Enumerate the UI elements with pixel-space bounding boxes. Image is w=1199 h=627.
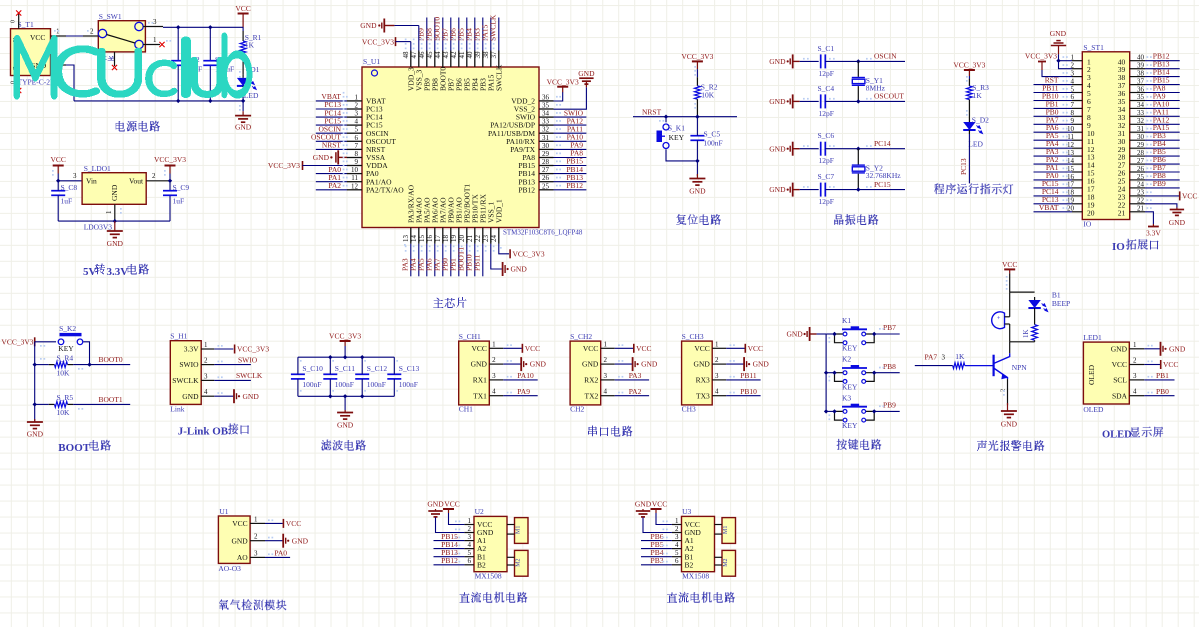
svg-text:27: 27	[1137, 157, 1145, 165]
svg-text:VCC_3V3: VCC_3V3	[154, 155, 186, 164]
capacitor S_C2	[171, 55, 202, 74]
svg-text:12pF: 12pF	[819, 197, 834, 206]
svg-text:19: 19	[450, 235, 458, 243]
svg-text:20: 20	[458, 235, 466, 243]
svg-text:GND: GND	[689, 187, 706, 196]
svg-text:GND: GND	[235, 123, 252, 132]
svg-text:24: 24	[1137, 181, 1145, 189]
junction key K2 right	[872, 371, 876, 375]
svg-text:CH3: CH3	[682, 404, 696, 413]
svg-text:23: 23	[1137, 189, 1145, 197]
svg-text:GND: GND	[769, 97, 786, 106]
title IO拓展口	[1112, 239, 1159, 253]
GND bar left S_C6	[769, 142, 818, 156]
svg-text:5: 5	[675, 549, 679, 557]
pin 0 top of S_T1	[11, 13, 19, 29]
svg-text:OLED: OLED	[1087, 364, 1096, 385]
svg-text:48: 48	[402, 51, 410, 59]
S_CH2 TX net	[615, 387, 649, 396]
junction key rail K2	[824, 371, 828, 375]
svg-text:5: 5	[355, 126, 359, 134]
S_CH1 GND port	[503, 357, 546, 371]
mcu left pins 1-12	[347, 93, 404, 194]
U3 net labels	[641, 532, 672, 565]
svg-text:GND: GND	[110, 184, 119, 201]
svg-text:4: 4	[1133, 388, 1137, 396]
crystal lead bottom	[857, 174, 859, 190]
junction filter top 345	[343, 355, 347, 359]
regulator S_LDO1 LDO3V3	[82, 164, 146, 232]
svg-text:3: 3	[715, 372, 719, 380]
S_CH3 TX net	[726, 387, 760, 396]
driver U2 body	[474, 507, 507, 581]
svg-text:1K: 1K	[973, 91, 983, 100]
capacitor S_C3 lead	[209, 27, 211, 101]
svg-text:TX1: TX1	[473, 391, 487, 400]
svg-text:GND: GND	[769, 144, 786, 153]
capacitor S_C2 lead	[177, 27, 179, 101]
svg-text:AO-O3: AO-O3	[218, 564, 241, 573]
title 直流电机电路 U3	[667, 592, 735, 603]
mcu VCC_3V3 at VDD_3	[362, 37, 411, 50]
cap C5 leads	[696, 117, 698, 161]
svg-text:100nF: 100nF	[335, 380, 354, 389]
svg-text:37: 37	[1137, 77, 1145, 85]
svg-text:20: 20	[1087, 208, 1095, 217]
junction key rail K3	[824, 409, 828, 413]
svg-text:13: 13	[402, 235, 410, 243]
svg-text:PB12: PB12	[566, 181, 583, 190]
junction NRST R2	[695, 115, 699, 119]
svg-text:VCC: VCC	[1002, 260, 1017, 269]
crystal S_Y1 lead top	[857, 61, 859, 77]
svg-text:GND: GND	[1169, 344, 1186, 353]
svg-text:4: 4	[468, 541, 472, 549]
key K3 wire left	[826, 410, 834, 412]
wire BOOT1 left	[35, 403, 49, 405]
capacitor S_C13 leads	[0, 0, 1, 1]
svg-text:K3: K3	[842, 393, 851, 402]
svg-text:1: 1	[604, 340, 608, 348]
header right net labels	[1145, 52, 1180, 188]
U3 VCC symbol	[651, 509, 662, 513]
jlink SWCLK	[214, 371, 263, 380]
svg-text:VCC_3V3: VCC_3V3	[513, 249, 545, 258]
svg-text:S_R5: S_R5	[57, 393, 74, 402]
pin 1 VCC of S_T1	[51, 28, 67, 37]
svg-text:VCC_3V3: VCC_3V3	[547, 78, 579, 87]
svg-text:33: 33	[1137, 109, 1145, 117]
svg-text:K2: K2	[842, 355, 851, 364]
title 串口电路	[588, 426, 632, 437]
GND bar left S_C7	[769, 183, 818, 197]
svg-text:GND: GND	[578, 69, 595, 78]
svg-text:S_C10: S_C10	[302, 364, 323, 373]
svg-text:VCC_3V3: VCC_3V3	[237, 345, 269, 354]
svg-text:S_LDO1: S_LDO1	[84, 164, 111, 173]
power port VCC_3V3 (led)	[953, 60, 985, 76]
crystal freq label	[866, 171, 901, 180]
svg-text:3: 3	[204, 372, 208, 380]
header GND pin22	[1145, 204, 1186, 227]
svg-text:NPN: NPN	[1012, 363, 1028, 372]
svg-text:30: 30	[542, 142, 550, 150]
svg-text:S_K1: S_K1	[668, 124, 685, 133]
svg-text:VCC: VCC	[748, 344, 763, 353]
svg-text:IO: IO	[1112, 241, 1125, 253]
wire VCC to R1	[242, 27, 244, 41]
capacitor S_C12 leads	[0, 0, 1, 1]
svg-text:12pF: 12pF	[819, 156, 834, 165]
title 5V转3.3V电路	[83, 264, 149, 279]
svg-text:2: 2	[152, 172, 156, 180]
svg-text:VCC: VCC	[286, 519, 301, 528]
svg-text:PB11: PB11	[473, 254, 482, 271]
svg-text:OLED: OLED	[1083, 405, 1104, 414]
svg-text:MX1508: MX1508	[475, 572, 502, 581]
mcu GND at VSS_1	[491, 244, 528, 276]
boot GND symbol	[27, 404, 44, 438]
svg-text:VCC: VCC	[232, 519, 247, 528]
svg-text:3: 3	[675, 533, 679, 541]
title 主芯片	[433, 297, 466, 308]
svg-text:SWCLK: SWCLK	[172, 376, 199, 385]
svg-text:SCL: SCL	[1113, 376, 1127, 385]
svg-text:3: 3	[942, 354, 946, 362]
U3 VCC label	[652, 500, 667, 509]
S_CH2 RX net	[615, 371, 649, 380]
svg-text:4: 4	[492, 388, 496, 396]
filter gnd stem	[337, 396, 354, 429]
svg-text:S_C9: S_C9	[173, 183, 190, 192]
svg-text:VBAT: VBAT	[1039, 203, 1059, 212]
svg-text:GND: GND	[769, 57, 786, 66]
svg-text:PB0: PB0	[1156, 387, 1169, 396]
svg-text:8: 8	[355, 150, 359, 158]
svg-text:36: 36	[1137, 85, 1145, 93]
svg-text:GND: GND	[231, 536, 248, 545]
label 1K base	[955, 352, 965, 361]
svg-text:BOOT: BOOT	[58, 442, 90, 454]
svg-text:1: 1	[355, 93, 359, 101]
key K1 wire left	[826, 333, 834, 335]
S_CH1 RX net	[503, 371, 537, 380]
alarm top rail	[1010, 291, 1035, 293]
svg-text:GND: GND	[107, 239, 124, 248]
svg-text:PC14: PC14	[874, 139, 891, 148]
net label BOOT0	[99, 355, 123, 364]
U2 motor conn M1	[507, 518, 528, 544]
svg-text:PB11: PB11	[740, 371, 757, 380]
push button K1	[835, 316, 875, 353]
svg-text:GND: GND	[313, 153, 330, 162]
svg-text:40: 40	[466, 51, 474, 59]
jlink pins	[172, 341, 214, 401]
title 氧气检测模块	[219, 599, 286, 610]
svg-text:M2: M2	[723, 558, 729, 566]
svg-text:31: 31	[542, 134, 550, 142]
push button S_K1 KEY	[657, 124, 686, 149]
U2 net labels	[434, 532, 465, 565]
label 开关	[99, 56, 114, 61]
ldo bottom rail	[58, 220, 170, 222]
svg-text:GND: GND	[530, 360, 547, 369]
header S_CH2 body	[570, 332, 601, 413]
svg-text:K1: K1	[842, 316, 851, 325]
capacitor S_C3	[203, 55, 234, 74]
svg-text:SWCLK: SWCLK	[495, 64, 504, 91]
header S_ST1 body	[1082, 43, 1129, 229]
svg-text:25: 25	[542, 182, 550, 190]
svg-text:12: 12	[351, 182, 359, 190]
svg-text:PB3: PB3	[651, 556, 664, 565]
header GND top	[1050, 29, 1072, 69]
svg-text:2: 2	[715, 356, 719, 364]
svg-text:S_C7: S_C7	[818, 172, 835, 181]
wire S_C4 to node	[825, 100, 905, 102]
svg-text:U2: U2	[475, 507, 484, 516]
svg-text:AO: AO	[237, 553, 248, 562]
key K2 wire right	[874, 372, 900, 374]
bottom rail wire	[74, 100, 243, 102]
svg-text:Link: Link	[170, 405, 184, 414]
driver U3 body	[682, 507, 715, 581]
svg-text:OLED: OLED	[1102, 430, 1132, 441]
svg-text:PA2: PA2	[328, 181, 341, 190]
svg-text:38: 38	[482, 51, 490, 59]
svg-text:Vout: Vout	[129, 177, 144, 186]
svg-text:VCC_3V3: VCC_3V3	[681, 52, 713, 61]
svg-text:2: 2	[254, 533, 258, 541]
svg-text:35: 35	[1137, 93, 1145, 101]
GND bar left S_C4	[769, 94, 818, 108]
svg-text:6: 6	[675, 557, 679, 565]
svg-text:VCC: VCC	[583, 344, 598, 353]
svg-text:PB8: PB8	[883, 362, 896, 371]
no-connect X on S_T1 top pin	[16, 10, 21, 15]
svg-text:4: 4	[715, 388, 719, 396]
svg-text:SWCLK: SWCLK	[236, 371, 263, 380]
alarm vcc stem	[1009, 273, 1011, 292]
module U1 body	[218, 507, 250, 573]
header 3.3V pin21	[1145, 212, 1161, 238]
svg-text:GND: GND	[243, 392, 260, 401]
wire K2 to BOOT0	[83, 342, 89, 365]
ldo vcc wire	[58, 174, 82, 181]
svg-text:GND: GND	[786, 330, 803, 339]
resistor S_R1 1K	[240, 33, 261, 54]
svg-text:46: 46	[418, 51, 426, 59]
capacitor S_C10	[291, 364, 323, 389]
svg-text:KEY: KEY	[669, 133, 685, 142]
header LED1 body	[1083, 333, 1129, 414]
net label PB8	[883, 362, 896, 371]
svg-text:1K: 1K	[955, 352, 965, 361]
junction key K3 left	[832, 409, 836, 413]
title BOOT电路	[58, 440, 110, 454]
svg-text:GND: GND	[1050, 29, 1067, 38]
svg-text:21: 21	[1118, 208, 1126, 217]
svg-text:GND: GND	[1001, 419, 1018, 428]
wire BOOT1 right	[73, 403, 130, 405]
U3 vcc wire	[656, 513, 672, 525]
capacitor S_C11	[323, 364, 355, 389]
pin 1 GND ldo	[105, 204, 115, 221]
capacitor S_C6	[818, 131, 835, 165]
filter top rail	[298, 356, 394, 358]
svg-text:38: 38	[1137, 69, 1145, 77]
svg-text:1uF: 1uF	[173, 197, 185, 206]
oxygen pins	[231, 515, 265, 562]
svg-text:S_C6: S_C6	[818, 131, 835, 140]
header S_CH1 body	[459, 332, 490, 413]
svg-text:3.3V: 3.3V	[184, 345, 199, 354]
S_CH2 pins	[582, 340, 615, 400]
svg-text:GND: GND	[337, 420, 354, 429]
crystal S_Y1	[852, 76, 883, 85]
svg-text:10K: 10K	[57, 408, 71, 417]
capacitor S_C13	[387, 364, 419, 389]
U2 motor conn M2	[507, 550, 528, 576]
net label PA7	[925, 353, 938, 362]
svg-text:100nF: 100nF	[704, 139, 723, 148]
svg-text:3: 3	[1133, 372, 1137, 380]
filter vcc stem	[344, 346, 346, 357]
svg-text:PA2: PA2	[629, 387, 642, 396]
pin 3 of S_SW1	[143, 18, 163, 27]
svg-text:S_T1: S_T1	[18, 20, 35, 29]
svg-text:3: 3	[492, 372, 496, 380]
svg-text:PA9: PA9	[517, 387, 530, 396]
svg-text:41: 41	[458, 51, 466, 59]
junction BOOT0	[87, 362, 91, 366]
svg-text:29: 29	[542, 150, 550, 158]
svg-text:S_U1: S_U1	[363, 57, 380, 66]
filter bottom rail	[298, 395, 394, 397]
svg-text:28: 28	[542, 158, 550, 166]
svg-text:VCC: VCC	[1163, 360, 1178, 369]
svg-text:3: 3	[254, 549, 258, 557]
svg-text:GND: GND	[471, 360, 488, 369]
svg-text:VCC_3V3: VCC_3V3	[329, 332, 361, 341]
svg-text:21: 21	[466, 235, 474, 243]
svg-text:4: 4	[355, 118, 359, 126]
svg-text:100nF: 100nF	[367, 380, 386, 389]
title 滤波电路	[321, 440, 366, 451]
svg-text:S_C4: S_C4	[818, 84, 835, 93]
pin 2 of S_SW1	[83, 28, 98, 37]
svg-text:S_C11: S_C11	[335, 364, 355, 373]
svg-text:34: 34	[1137, 101, 1145, 109]
svg-text:1: 1	[204, 341, 208, 349]
junction top rail C2	[176, 25, 180, 29]
capacitor S_C5	[690, 130, 722, 148]
wire NRST	[633, 116, 737, 118]
svg-text:3.3V: 3.3V	[107, 266, 129, 278]
svg-text:23: 23	[482, 235, 490, 243]
junction top rail C3	[208, 25, 212, 29]
resistor S_R3 1K	[967, 83, 990, 100]
svg-text:KEY: KEY	[842, 421, 858, 430]
svg-text:1K: 1K	[245, 41, 255, 50]
svg-text:1K: 1K	[1022, 329, 1030, 338]
svg-text:B1: B1	[1052, 290, 1061, 299]
svg-text:PA10: PA10	[517, 371, 534, 380]
svg-text:S_ST1: S_ST1	[1083, 43, 1104, 52]
pin 3 label	[942, 354, 946, 362]
pin 2 Vout	[146, 172, 170, 181]
svg-text:BOOT1: BOOT1	[99, 395, 123, 404]
wire vcc to R2	[696, 69, 698, 86]
wire BOOT0 right	[73, 364, 130, 366]
mcu right pins 36-25	[488, 93, 553, 194]
svg-text:VCC_3V3: VCC_3V3	[953, 60, 985, 69]
junction ldo gnd	[113, 219, 117, 223]
svg-text:M1: M1	[516, 526, 522, 534]
title 复位电路	[676, 214, 721, 225]
svg-text:22: 22	[1137, 197, 1145, 205]
wire BOOT0 left	[35, 364, 49, 366]
svg-text:32.768KHz: 32.768KHz	[866, 171, 901, 180]
junction key K2 left	[832, 371, 836, 375]
svg-text:PB1: PB1	[1156, 371, 1169, 380]
LED D1	[237, 65, 260, 100]
jlink GND	[214, 389, 259, 403]
svg-text:2: 2	[90, 28, 94, 36]
cap C8 leads	[57, 181, 59, 221]
svg-text:2: 2	[604, 356, 608, 364]
U2 VCC label	[444, 500, 459, 509]
jlink VCC_3V3	[214, 345, 269, 354]
svg-text:1uF: 1uF	[61, 197, 73, 206]
svg-text:SWIO: SWIO	[179, 360, 199, 369]
mcu bottom pins 13-24	[402, 184, 503, 244]
junction filter top 362	[360, 355, 364, 359]
svg-text:6: 6	[355, 134, 359, 142]
header S_H1 body	[170, 332, 201, 414]
reset GND symbol	[689, 174, 706, 196]
wire S_C6 to node	[825, 148, 905, 150]
svg-text:5: 5	[468, 549, 472, 557]
mcu GND at VSSA	[313, 150, 347, 164]
resistor S_R5 10K	[49, 393, 74, 417]
svg-text:44: 44	[434, 51, 442, 59]
svg-text:10: 10	[351, 166, 359, 174]
net label PB9	[883, 401, 896, 410]
junction bottom C3	[208, 99, 212, 103]
S_CH1 TX net	[503, 387, 537, 396]
svg-text:S_C13: S_C13	[399, 364, 420, 373]
keys rail	[825, 334, 827, 411]
U3 motor conn M1	[715, 518, 736, 544]
pin 0 bottom of S_T1	[11, 76, 19, 91]
svg-text:10K: 10K	[57, 368, 71, 377]
svg-text:GND: GND	[753, 360, 770, 369]
mcu VCC_3V3 at VDD_1	[499, 244, 545, 258]
title OLED显示屏	[1102, 427, 1163, 441]
svg-text:3: 3	[153, 18, 157, 26]
U2 gnd wire	[436, 518, 465, 533]
svg-text:Vin: Vin	[86, 177, 97, 186]
svg-text:5V: 5V	[83, 266, 97, 278]
svg-text:KEY: KEY	[842, 382, 858, 391]
mcu GND at VSS_3	[360, 19, 419, 51]
resistor S_R2 10K	[695, 83, 718, 100]
svg-text:VCC: VCC	[30, 33, 45, 42]
svg-text:GND: GND	[1169, 218, 1186, 227]
svg-text:GND: GND	[641, 360, 658, 369]
svg-text:PB12: PB12	[441, 556, 458, 565]
